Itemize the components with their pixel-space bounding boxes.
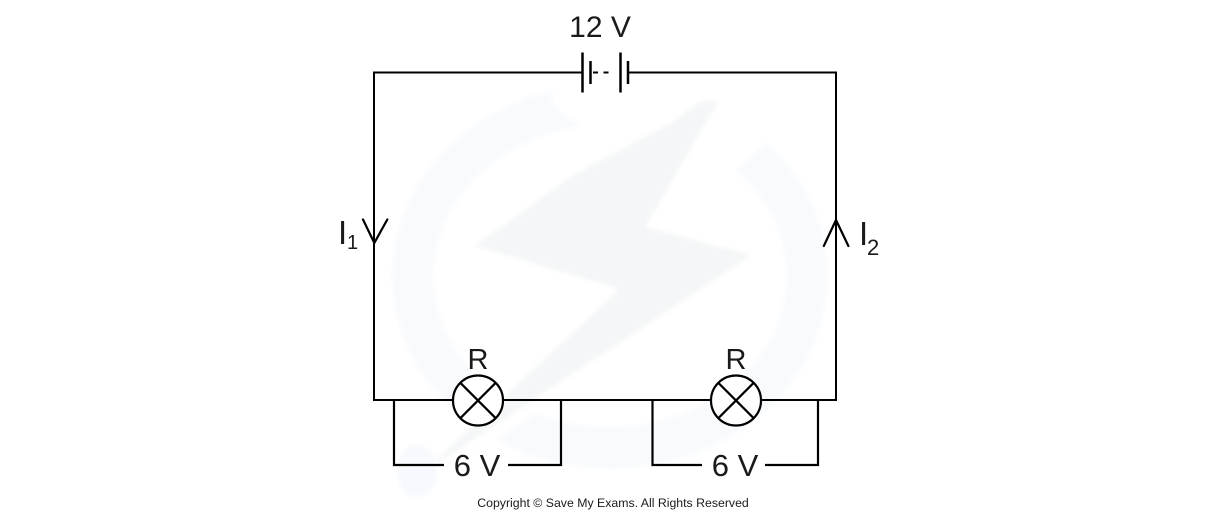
arrow I2 current direction (up) on right wire: [824, 220, 849, 246]
wire: bottom side middle segment: [503, 399, 711, 401]
watermark logo ring: [413, 104, 807, 448]
svg-text:6 V: 6 V: [454, 448, 501, 483]
battery cell short plate 2: [627, 61, 630, 84]
wire: right side: [835, 72, 837, 402]
battery cell short plate 1: [589, 61, 592, 84]
svg-text:I: I: [338, 214, 347, 251]
wire: bottom side right segment: [761, 399, 837, 401]
svg-text:6 V: 6 V: [712, 448, 759, 483]
svg-text:Copyright © Save My Exams. All: Copyright © Save My Exams. All Rights Re…: [477, 496, 749, 510]
voltmeter bracket 1 right drop wire: [508, 400, 561, 465]
lamp R1 cross: [460, 383, 495, 418]
svg-text:1: 1: [347, 232, 358, 254]
watermark logo lightning bolt: [420, 100, 751, 475]
svg-text:R: R: [468, 344, 489, 376]
voltmeter bracket 2 right drop wire: [765, 400, 818, 465]
battery cell long plate 2: [619, 53, 622, 93]
watermark ring cut at bolt tip: [638, 64, 778, 237]
wire: bottom side left segment: [373, 399, 453, 401]
svg-text:12 V: 12 V: [569, 11, 631, 44]
watermark bolt white halo: [420, 100, 751, 475]
lamp R2 circle: [711, 376, 761, 426]
svg-text:2: 2: [867, 235, 879, 260]
voltmeter bracket 1 left drop wire: [394, 400, 444, 465]
watermark bolt blue lower tip: [397, 445, 437, 497]
battery cell long plate 1: [581, 53, 584, 93]
arrow I1 current direction (down) on left wire: [363, 220, 387, 244]
svg-text:R: R: [726, 344, 747, 376]
wire: top-right segment of top side: [628, 72, 836, 74]
wire: left side: [373, 72, 375, 402]
lamp R1 circle: [453, 376, 503, 426]
wire: top-left segment of top side: [374, 72, 582, 74]
voltmeter bracket 2 left drop wire: [653, 400, 703, 465]
watermark ring top fade: [552, 56, 744, 136]
lamp R2 cross: [718, 383, 753, 418]
battery dashed link: [593, 72, 610, 74]
